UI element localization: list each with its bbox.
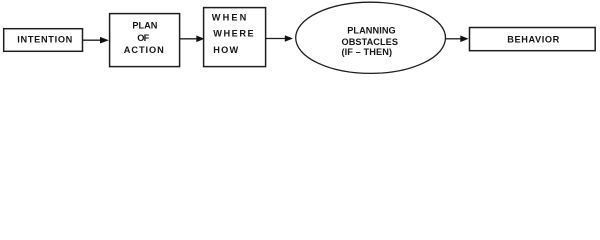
box PLAN OF ACTION [110, 14, 180, 67]
svg-text:ACTION: ACTION [124, 45, 164, 55]
svg-text:(IF – THEN): (IF – THEN) [342, 47, 393, 57]
svg-text:WHERE: WHERE [213, 29, 254, 39]
svg-text:PLANNING: PLANNING [347, 26, 396, 36]
arrowhead 3 [285, 35, 293, 42]
wire arrow 4 [446, 38, 461, 40]
wire arrow 1 [83, 39, 100, 41]
svg-text:HOW: HOW [213, 45, 238, 55]
arrowhead 4 [460, 36, 468, 43]
ellipse PLANNING OBSTACLES [296, 2, 446, 73]
svg-text:INTENTION: INTENTION [17, 35, 72, 45]
arrowhead 1 [100, 37, 109, 44]
box INTENTION [4, 29, 83, 52]
wire arrow 2 [180, 38, 197, 40]
box WHEN WHERE HOW [204, 8, 266, 67]
svg-text:OBSTACLES: OBSTACLES [342, 37, 399, 47]
svg-text:BEHAVIOR: BEHAVIOR [507, 35, 559, 45]
arrowhead 2 [196, 36, 204, 43]
box BEHAVIOR [470, 28, 596, 51]
svg-text:WHEN: WHEN [212, 13, 247, 23]
wire arrow 3 [266, 38, 286, 40]
svg-text:PLAN: PLAN [132, 21, 157, 31]
svg-text:OF: OF [137, 33, 149, 43]
